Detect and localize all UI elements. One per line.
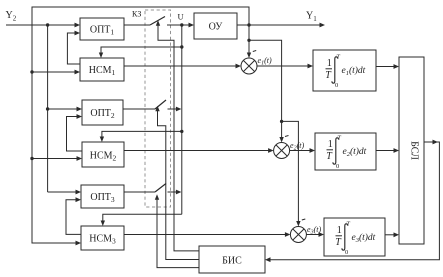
svg-text:ОУ: ОУ bbox=[209, 22, 224, 33]
wire integrator1 to BSL bbox=[376, 66, 395, 68]
svg-text:НСМ3: НСМ3 bbox=[89, 234, 116, 246]
svg-text:0: 0 bbox=[336, 163, 339, 170]
svg-text:БИС: БИС bbox=[222, 256, 242, 267]
svg-text:e1(t)dt: e1(t)dt bbox=[342, 65, 366, 77]
node OU output junction bbox=[247, 23, 250, 26]
block NSM2 bbox=[82, 142, 124, 167]
wire NSM3 output to sum3 bbox=[124, 234, 286, 236]
wire OPT1 output to switch SW1 bbox=[124, 24, 150, 26]
node feedback NSM2 junction bbox=[30, 157, 33, 160]
block BIS bbox=[199, 246, 265, 273]
wire SW1 to OU bbox=[167, 24, 190, 26]
wire Y2 to OPT3 bbox=[48, 191, 77, 193]
wire U to NSM3 top bbox=[103, 214, 182, 221]
wire NSM1 to OPT1 loop bbox=[67, 33, 80, 64]
svg-text:НСМ1: НСМ1 bbox=[89, 65, 116, 77]
block OPT2 bbox=[82, 100, 123, 125]
wire U to NSM1 top bbox=[101, 47, 182, 54]
wire integrator2 to BSL bbox=[376, 150, 395, 152]
wire sum2 to integrator2 bbox=[290, 150, 311, 152]
summing junction S1 bbox=[241, 58, 257, 74]
wire OPT2 output to SW2 bbox=[123, 108, 155, 110]
wire BIS to SW1 control bbox=[158, 26, 199, 251]
block integrator I3 bbox=[324, 218, 385, 256]
wire NSM2 to OPT2 loop bbox=[67, 117, 83, 152]
node Y2 branch junction bbox=[46, 23, 49, 26]
wire SW2 to U bus bbox=[168, 108, 178, 110]
wire U bus bbox=[181, 25, 183, 214]
svg-text:e3(t)dt: e3(t)dt bbox=[352, 232, 376, 244]
wire Y2 input bbox=[6, 24, 76, 26]
svg-text:БСЛ: БСЛ bbox=[409, 141, 420, 160]
svg-text:0: 0 bbox=[335, 82, 338, 89]
block BSL bbox=[399, 57, 424, 244]
wire NSM2 output to sum2 bbox=[124, 150, 269, 152]
wire BSL output to BIS bbox=[270, 142, 439, 260]
svg-text:U: U bbox=[178, 12, 184, 22]
svg-text:e2(t)dt: e2(t)dt bbox=[343, 146, 367, 158]
block integrator I2 bbox=[315, 133, 376, 170]
block OU bbox=[194, 13, 237, 39]
wire NSM3 to OPT3 loop bbox=[66, 200, 81, 235]
wire OPT3 output to SW3 bbox=[124, 191, 155, 193]
wire integrator3 to BSL bbox=[385, 234, 395, 236]
wire NSM1 output to sum1 bbox=[124, 65, 237, 67]
wire BIS to SW2 control bbox=[158, 111, 200, 260]
block OPT3 bbox=[81, 185, 124, 208]
node U bus to NSM1 junction bbox=[180, 45, 183, 48]
wire sum3 to integrator3 bbox=[306, 234, 319, 236]
wire sum1 to integrator1 bbox=[257, 65, 309, 67]
wire U to NSM2 top bbox=[102, 131, 182, 137]
wire feedback to NSM1 bbox=[32, 71, 76, 73]
block NSM1 bbox=[80, 58, 124, 81]
node feedback NSM1 junction bbox=[30, 70, 33, 73]
switch SW3 blade bbox=[155, 184, 166, 193]
summing junction S3 bbox=[290, 227, 306, 243]
wire OU signal to sum3 bbox=[282, 121, 299, 222]
block NSM3 bbox=[81, 226, 124, 250]
dashed box KZ bbox=[145, 10, 171, 207]
integrator I1 formula bbox=[325, 54, 365, 90]
wire Y2 to OPT2 bbox=[48, 108, 78, 110]
switch SW2 blade bbox=[155, 100, 166, 109]
node U bus to NSM2 junction bbox=[180, 130, 183, 133]
block integrator I1 bbox=[313, 50, 376, 91]
node sum3 feed junction bbox=[280, 120, 283, 123]
wire OU signal to sum2 bbox=[249, 40, 282, 138]
svg-text:1: 1 bbox=[337, 225, 342, 236]
svg-text:1: 1 bbox=[327, 58, 332, 69]
node U junction bbox=[180, 23, 183, 26]
integrator I3 formula bbox=[335, 221, 375, 257]
integrator I2 formula bbox=[326, 135, 366, 171]
block OPT1 bbox=[80, 18, 124, 40]
wire feedback top loop to NSM3 bbox=[32, 7, 249, 243]
switch SW1 blade bbox=[150, 17, 165, 26]
wire OU output to Y1 bbox=[237, 24, 321, 26]
minus sign at sum1 bbox=[253, 51, 256, 52]
wire Y2 distribution vertical bbox=[47, 25, 49, 192]
summing junction S2 bbox=[274, 143, 290, 159]
svg-text:НСМ2: НСМ2 bbox=[90, 151, 117, 163]
node e-feed junction bbox=[247, 39, 250, 42]
minus sign at sum2 bbox=[285, 136, 289, 137]
wire SW3 to U bus bbox=[168, 191, 178, 193]
svg-text:КЗ: КЗ bbox=[132, 10, 141, 19]
wire BIS to SW3 control bbox=[157, 200, 199, 268]
wire feedback to NSM2 bbox=[32, 158, 78, 160]
svg-text:0: 0 bbox=[345, 249, 348, 256]
minus sign at sum3 bbox=[302, 219, 306, 220]
wire OU to sum1 bbox=[248, 25, 250, 54]
node Y2 to OPT2 junction bbox=[46, 107, 49, 110]
svg-text:1: 1 bbox=[328, 139, 333, 150]
